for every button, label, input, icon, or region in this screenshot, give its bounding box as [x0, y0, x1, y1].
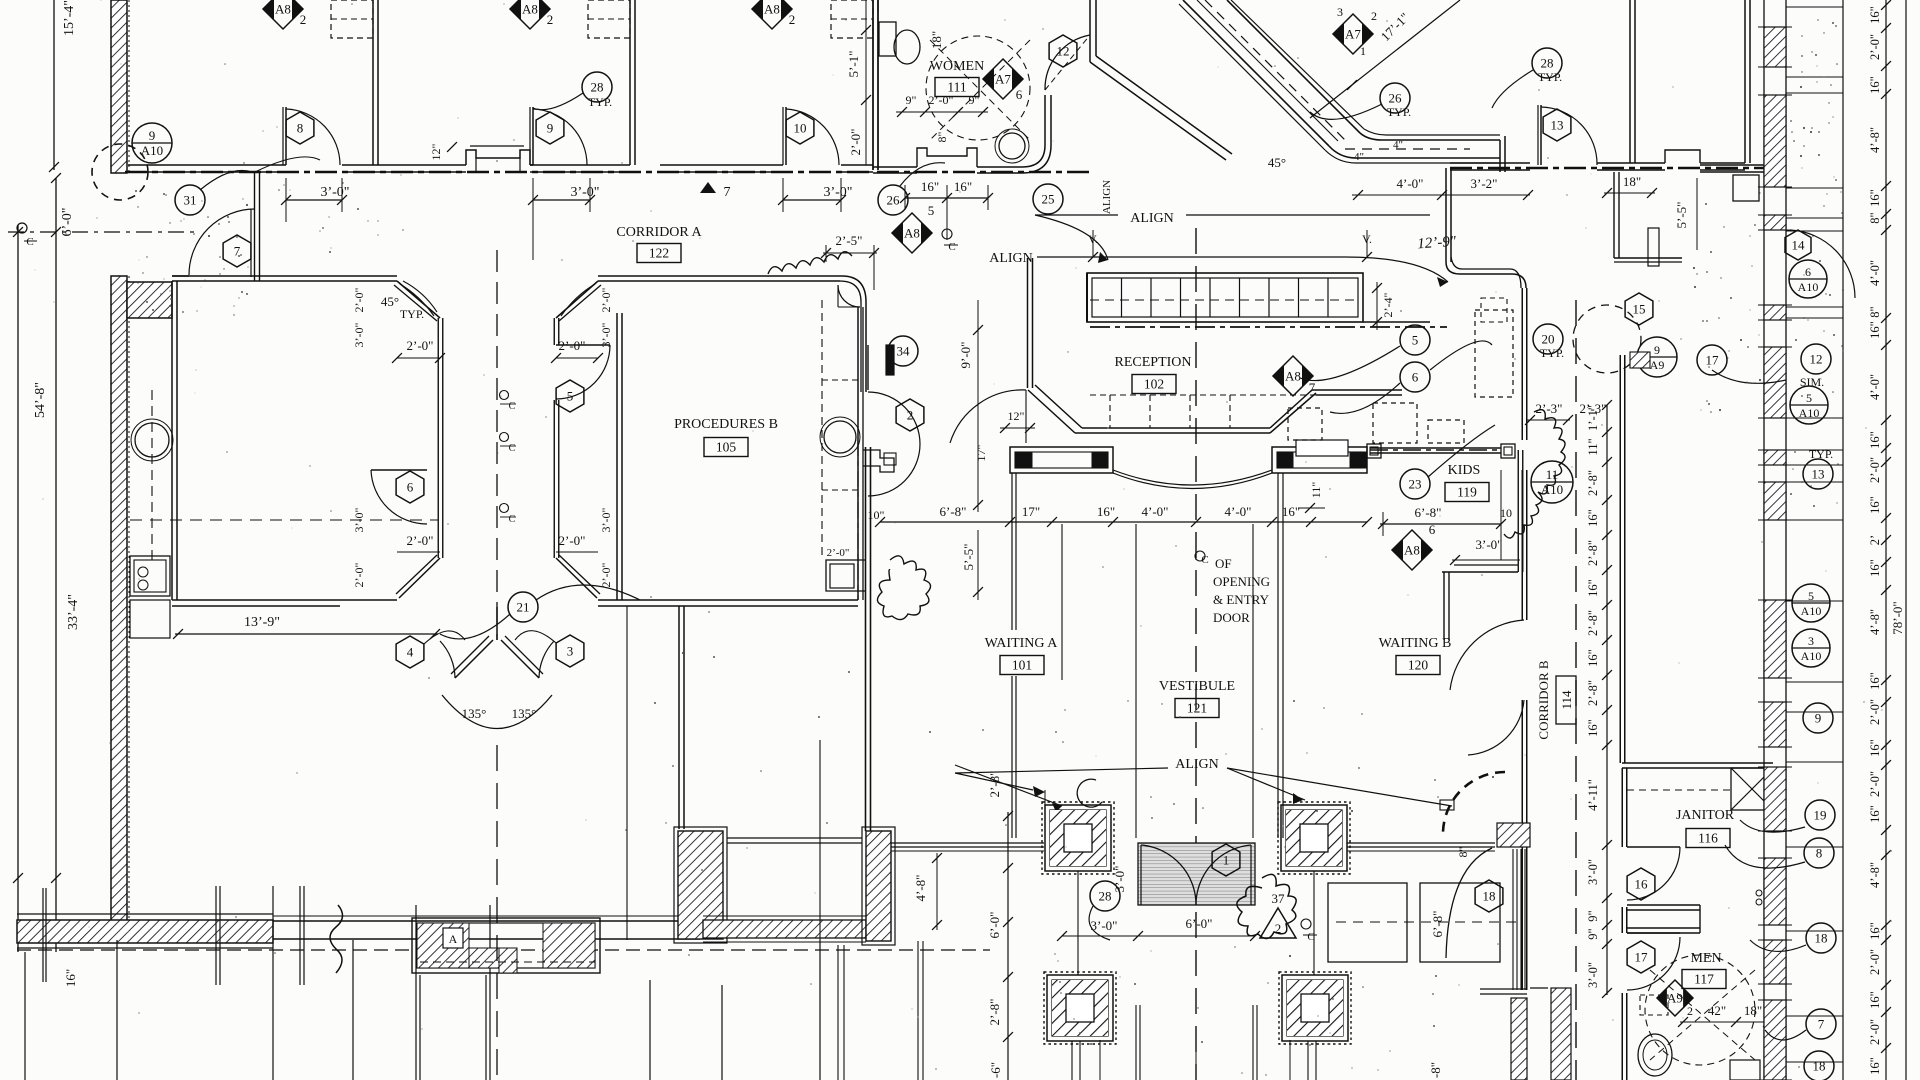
svg-text:2’: 2’ — [1868, 535, 1882, 545]
east dim line — [1885, 0, 1887, 1080]
svg-text:9: 9 — [149, 128, 156, 143]
svg-text:19: 19 — [1814, 808, 1827, 823]
pod2 chamfer top — [556, 281, 598, 318]
entry footing U-shape — [412, 918, 600, 973]
svg-text:16": 16" — [1868, 739, 1882, 757]
women sink — [999, 133, 1025, 159]
svg-text:12": 12" — [1008, 409, 1025, 423]
women south wall right — [977, 166, 1022, 168]
column connector lines — [1077, 871, 1079, 975]
svg-text:18": 18" — [1623, 174, 1641, 189]
front counter right segment — [1272, 447, 1367, 473]
svg-text:DOOR: DOOR — [1213, 610, 1250, 625]
svg-text:11": 11" — [1586, 438, 1600, 455]
corridor A south wall left — [172, 275, 397, 277]
storefront right segment — [1347, 842, 1495, 844]
pod1 chamfer bottom — [399, 558, 440, 598]
svg-text:4’-0": 4’-0" — [1868, 260, 1882, 286]
svg-text:2’-0": 2’-0" — [929, 93, 954, 107]
S sill hatched band — [703, 920, 866, 938]
svg-text:A9: A9 — [1650, 358, 1665, 372]
svg-text:101: 101 — [1012, 658, 1032, 673]
svg-text:17": 17" — [974, 444, 988, 461]
SW pier hatched — [678, 831, 723, 939]
svg-text:A8: A8 — [1285, 369, 1301, 384]
corridor B east wall — [1619, 355, 1621, 763]
svg-text:CORRIDOR A: CORRIDOR A — [616, 225, 702, 240]
svg-text:2: 2 — [907, 408, 914, 423]
svg-text:2: 2 — [547, 12, 554, 27]
triangle 7 marker — [700, 182, 716, 193]
counter room1 — [331, 0, 373, 38]
wall room2-3 — [629, 0, 631, 165]
svg-text:6: 6 — [1805, 265, 1811, 279]
counter jamb projection lines — [1277, 473, 1279, 838]
svg-text:2’-4": 2’-4" — [1381, 292, 1395, 317]
symbol 34 — [888, 336, 918, 366]
mullions below entry — [1135, 1005, 1137, 1080]
south footing hatched band — [17, 920, 273, 943]
wall room1-2 — [372, 0, 374, 165]
svg-text:4’-8": 4’-8" — [1868, 609, 1882, 635]
svg-text:18": 18" — [1744, 1003, 1762, 1018]
svg-text:2’-3": 2’-3" — [1536, 401, 1563, 416]
svg-text:16: 16 — [1635, 877, 1649, 892]
svg-text:6: 6 — [1429, 522, 1436, 537]
svg-text:14: 14 — [1792, 238, 1806, 253]
vestibule south wall — [172, 275, 189, 277]
svg-text:A10: A10 — [1801, 604, 1822, 618]
svg-text:WAITING B: WAITING B — [1379, 636, 1452, 651]
svg-text:16": 16" — [1586, 719, 1600, 737]
svg-text:RECEPTION: RECEPTION — [1115, 355, 1192, 370]
svg-text:WAITING A: WAITING A — [985, 636, 1059, 651]
svg-text:23: 23 — [1409, 477, 1422, 492]
svg-text:3’-2": 3’-2" — [1471, 176, 1498, 191]
reception west wall — [1027, 258, 1029, 388]
footing dashed inner — [420, 961, 595, 963]
svg-text:4": 4" — [1393, 139, 1403, 151]
svg-text:122: 122 — [649, 246, 669, 261]
svg-text:9: 9 — [547, 121, 554, 136]
corridor A south wall mid — [598, 275, 842, 277]
svg-text:6’-0": 6’-0" — [1186, 916, 1213, 931]
left long dimension line — [17, 225, 19, 952]
sheet speckle — [621, 162, 622, 163]
svg-text:2’-0": 2’-0" — [1868, 699, 1882, 725]
svg-text:C: C — [509, 443, 516, 454]
svg-text:3’-0": 3’-0" — [599, 507, 613, 532]
reception desk diagonal left — [1035, 385, 1082, 428]
wall down from corridor at 1447 — [1445, 168, 1447, 262]
ramp upper wall diagonal — [1089, 0, 1091, 62]
svg-text:16": 16" — [1868, 76, 1882, 94]
women rounded SE corner — [1022, 130, 1045, 167]
chase jogs — [863, 450, 894, 472]
svg-text:A7: A7 — [1345, 27, 1361, 42]
svg-text:A10: A10 — [141, 143, 163, 158]
column SW — [1047, 975, 1113, 1041]
waiting A west wall — [865, 447, 867, 831]
men turning circle — [1645, 955, 1755, 1065]
svg-text:8: 8 — [297, 121, 304, 136]
svg-text:TYP.: TYP. — [588, 95, 612, 109]
svg-text:17: 17 — [1635, 950, 1649, 965]
svg-text:2’-0": 2’-0" — [848, 129, 863, 156]
bench squares waiting B — [1328, 883, 1407, 962]
A8 diamond kids — [1392, 530, 1432, 570]
furniture dashed reception east — [1475, 310, 1513, 397]
svg-text:C: C — [1307, 931, 1314, 943]
front counter left segment — [1010, 447, 1113, 473]
vertical grid line x497 — [496, 745, 498, 1080]
hex 15 + 9/A9 — [1625, 293, 1653, 325]
svg-text:TYP.: TYP. — [1538, 70, 1562, 84]
svg-text:2’-0": 2’-0" — [1868, 34, 1882, 60]
door 8 — [285, 107, 287, 165]
svg-text:7: 7 — [724, 185, 731, 200]
break squiggle in footing — [330, 905, 343, 973]
svg-text:A10: A10 — [1801, 649, 1822, 663]
svg-text:16": 16" — [1868, 1057, 1882, 1075]
wall pier at vestibule corner — [127, 282, 172, 318]
svg-text:21: 21 — [517, 600, 530, 615]
column SE — [1282, 975, 1348, 1041]
svg-text:2’-8": 2’-8" — [1586, 680, 1600, 706]
east wall faces — [1763, 0, 1765, 1080]
svg-text:13: 13 — [1551, 118, 1564, 133]
svg-text:A8: A8 — [764, 2, 780, 17]
svg-text:10: 10 — [794, 121, 807, 136]
svg-text:12: 12 — [1057, 44, 1070, 59]
centerline vestibule dashed — [1195, 228, 1197, 1080]
women toilet — [894, 30, 920, 64]
svg-text:16": 16" — [1586, 649, 1600, 667]
svg-text:18: 18 — [1813, 1059, 1826, 1074]
svg-text:2’-3": 2’-3" — [1580, 401, 1607, 416]
women niche — [917, 148, 977, 167]
svg-text:9": 9" — [969, 93, 980, 107]
svg-text:16": 16" — [1868, 431, 1882, 449]
svg-text:2’-8": 2’-8" — [1586, 470, 1600, 496]
svg-text:105: 105 — [716, 440, 737, 455]
symbol 28 TYP top — [1532, 48, 1562, 78]
svg-text:VESTIBULE: VESTIBULE — [1159, 679, 1235, 694]
vert line pairs mid — [819, 740, 821, 940]
svg-text:28: 28 — [1099, 889, 1112, 904]
dashed centerline y232 — [8, 231, 195, 233]
hex 1 entry — [1212, 844, 1240, 876]
svg-text:A10: A10 — [1799, 406, 1820, 420]
svg-text:11: 11 — [1546, 467, 1559, 482]
svg-text:4": 4" — [1354, 151, 1364, 163]
niche lines detail — [475, 158, 477, 172]
svg-text:54’-8": 54’-8" — [33, 382, 48, 418]
svg-text:1: 1 — [1360, 44, 1366, 58]
counter room3 — [831, 0, 873, 38]
stair tray — [1087, 273, 1363, 322]
svg-text:3’-0": 3’-0" — [1586, 962, 1600, 988]
vestibule interior door frame — [254, 173, 256, 281]
pod1 verticals — [437, 318, 439, 558]
svg-text:3’-0": 3’-0" — [352, 322, 366, 347]
west exterior wall hatched lower — [111, 276, 127, 922]
svg-text:13: 13 — [1812, 467, 1825, 482]
svg-text:11": 11" — [1309, 482, 1323, 499]
svg-text:6’-8": 6’-8" — [1430, 911, 1445, 938]
door 2 procedures east — [867, 345, 869, 390]
svg-text:6: 6 — [1412, 370, 1419, 385]
symbols 5 6 reception — [1400, 325, 1430, 355]
CL entry — [1301, 919, 1311, 929]
svg-text:78’-0": 78’-0" — [1890, 601, 1905, 634]
procedures west wall — [616, 313, 618, 600]
corridor A north wall — [128, 164, 286, 166]
door 13 — [1540, 105, 1542, 165]
svg-text:C: C — [1201, 554, 1208, 566]
Y door 135 — [496, 607, 498, 640]
svg-text:17: 17 — [1706, 353, 1720, 368]
reception counter diagonal right — [1270, 390, 1312, 428]
entry mat hatched — [1138, 843, 1255, 905]
svg-text:2’-8": 2’-8" — [987, 999, 1002, 1026]
svg-text:12’-9": 12’-9" — [1417, 234, 1458, 253]
svg-text:16": 16" — [1868, 189, 1882, 207]
svg-text:16": 16" — [1868, 6, 1882, 24]
SE pier hatched — [866, 831, 891, 941]
svg-text:25: 25 — [1042, 192, 1055, 207]
procedures south wall — [598, 599, 858, 601]
door 7 — [189, 209, 255, 275]
svg-text:TYP.: TYP. — [1540, 346, 1564, 360]
exam fixture circle — [135, 423, 169, 457]
svg-text:A10: A10 — [1798, 280, 1819, 294]
wall room3-women — [872, 0, 874, 170]
west exterior wall hatched upper — [111, 0, 127, 173]
svg-text:2: 2 — [1687, 1004, 1693, 1018]
svg-text:A8: A8 — [1404, 543, 1420, 558]
11/A10 symbol — [1531, 461, 1573, 503]
svg-text:A8: A8 — [904, 226, 920, 241]
diamond A8 room1 — [263, 0, 303, 29]
kids north wall — [1370, 447, 1501, 449]
svg-text:119: 119 — [1457, 485, 1477, 500]
women fixtures top — [877, 0, 879, 12]
svg-text:33’-4": 33’-4" — [66, 594, 81, 630]
misc leader top left — [255, 157, 320, 172]
svg-text:A: A — [449, 932, 458, 946]
svg-text:& ENTRY: & ENTRY — [1213, 592, 1270, 607]
door 17 — [1627, 932, 1680, 934]
svg-text:16": 16" — [1586, 509, 1600, 527]
svg-text:16": 16" — [1868, 672, 1882, 690]
svg-text:26: 26 — [1389, 91, 1403, 106]
svg-text:2: 2 — [300, 12, 307, 27]
kids east wall — [1517, 450, 1519, 572]
door 16 — [1627, 846, 1680, 848]
svg-text:42": 42" — [1708, 1003, 1726, 1018]
5-5 dim NE — [1696, 178, 1698, 250]
svg-text:18": 18" — [929, 31, 944, 49]
svg-text:MEN: MEN — [1690, 951, 1721, 966]
svg-text:A8: A8 — [522, 2, 538, 17]
svg-text:3’-0": 3’-0" — [570, 185, 599, 200]
revision cloud procedures SE — [877, 556, 930, 620]
svg-text:34: 34 — [897, 344, 911, 359]
svg-text:117: 117 — [1694, 972, 1714, 987]
svg-text:C: C — [509, 401, 516, 412]
detail dashed circle at wall break — [92, 144, 148, 200]
column NE — [1281, 805, 1347, 871]
svg-text:6: 6 — [407, 480, 414, 495]
hex 4 3 doors — [396, 636, 424, 668]
svg-text:121: 121 — [1187, 701, 1207, 716]
svg-text:2’-0": 2’-0" — [827, 547, 850, 559]
svg-text:4’-8": 4’-8" — [1868, 127, 1882, 153]
symbol 26 left — [878, 185, 908, 215]
svg-text:ALIGN: ALIGN — [1130, 211, 1174, 226]
svg-text:4’-0": 4’-0" — [1142, 504, 1169, 519]
svg-text:-6": -6" — [988, 1062, 1003, 1078]
arc door corridor-waiting — [950, 390, 1026, 443]
svg-text:15: 15 — [1633, 302, 1646, 317]
south wall double line to center — [273, 920, 700, 922]
right top jog — [1700, 164, 1764, 166]
door 14 arc — [1790, 230, 1855, 298]
symbol 26 TYP stairs — [1380, 83, 1410, 113]
svg-text:TYP.: TYP. — [1387, 105, 1411, 119]
ramp inner rail — [1197, 0, 1338, 141]
corridor B centerline dashed — [1575, 300, 1577, 1080]
ramp center dashed — [1205, 0, 1345, 140]
svg-text:5’-5": 5’-5" — [961, 544, 976, 571]
corridor B west wall — [1521, 288, 1523, 440]
svg-text:ALIGN: ALIGN — [1175, 757, 1219, 772]
svg-text:2: 2 — [1275, 921, 1282, 936]
svg-text:8": 8" — [1868, 306, 1882, 317]
top right walls — [1629, 0, 1631, 163]
door 9 — [532, 107, 534, 165]
svg-text:16": 16" — [63, 969, 78, 987]
svg-text:4: 4 — [407, 645, 414, 660]
east room partition lines — [1786, 6, 1843, 8]
svg-text:JANITOR: JANITOR — [1676, 808, 1735, 823]
tray bold end — [1086, 273, 1088, 322]
storefront glass line west segment — [891, 842, 1044, 844]
hex 12 women door — [1049, 35, 1077, 67]
svg-text:16": 16" — [1868, 496, 1882, 514]
corr B revision cloud — [1504, 410, 1565, 538]
svg-text:45°: 45° — [1268, 155, 1286, 170]
svg-text:4’-0": 4’-0" — [1397, 176, 1424, 191]
svg-text:16": 16" — [954, 179, 972, 194]
ramp end cap — [1499, 140, 1501, 172]
svg-text:4’-0": 4’-0" — [1225, 504, 1252, 519]
pod2 chamfer bottom — [556, 558, 597, 598]
pod verticals right — [553, 318, 555, 345]
janitor dashed shelf — [1627, 789, 1731, 791]
svg-text:12: 12 — [1810, 352, 1823, 367]
svg-text:2’-0": 2’-0" — [352, 287, 366, 312]
svg-text:8": 8" — [1456, 846, 1470, 857]
exam dashed centerlines — [130, 519, 438, 521]
svg-text:2: 2 — [789, 12, 796, 27]
svg-text:5: 5 — [1412, 333, 1419, 348]
svg-text:45°: 45° — [381, 294, 399, 309]
women east wall — [1044, 95, 1046, 130]
svg-text:5: 5 — [1806, 391, 1812, 405]
women turning circle dashed — [926, 36, 1030, 140]
small niche W wall — [826, 560, 866, 591]
svg-text:8": 8" — [1868, 212, 1882, 223]
janitor west wall — [1621, 768, 1623, 847]
svg-text:6’-8": 6’-8" — [1415, 505, 1442, 520]
svg-text:10: 10 — [1500, 506, 1512, 520]
4-11 dim line — [1606, 763, 1608, 768]
women room walls — [872, 0, 874, 170]
svg-text:9’-0": 9’-0" — [958, 342, 973, 369]
svg-text:A10: A10 — [1541, 482, 1563, 497]
svg-text:16": 16" — [1868, 922, 1882, 940]
svg-text:CORRIDOR B: CORRIDOR B — [1536, 660, 1551, 739]
svg-text:17": 17" — [1022, 504, 1040, 519]
svg-text:2’-0": 2’-0" — [1868, 457, 1882, 483]
svg-text:4’-8": 4’-8" — [913, 875, 928, 902]
pod centerline dashed — [496, 250, 498, 640]
procedures walls east chase — [821, 300, 823, 560]
floor lines bottom center — [1099, 1040, 1101, 1080]
svg-text:PROCEDURES B: PROCEDURES B — [674, 417, 778, 432]
wall big room east — [678, 720, 680, 829]
symbol 25 — [1033, 184, 1063, 214]
svg-text:116: 116 — [1698, 831, 1718, 846]
svg-text:2’-0": 2’-0" — [407, 533, 434, 548]
svg-text:31: 31 — [184, 193, 197, 208]
svg-text:135°: 135° — [462, 706, 487, 721]
plumbing chase janitor-men — [1627, 904, 1700, 906]
svg-text:-8": -8" — [1428, 1062, 1443, 1078]
svg-text:4’-11": 4’-11" — [1586, 779, 1600, 811]
east mullion column — [1512, 849, 1514, 990]
svg-text:16": 16" — [1097, 504, 1115, 519]
svg-text:TYP.: TYP. — [400, 307, 424, 321]
closet NE — [1613, 172, 1615, 258]
revision cloud corridor — [768, 252, 852, 274]
svg-text:2’-0": 2’-0" — [352, 562, 366, 587]
svg-text:C: C — [509, 514, 516, 525]
svg-text:2’-0": 2’-0" — [599, 287, 613, 312]
svg-text:16": 16" — [1868, 805, 1882, 823]
svg-text:5’-1": 5’-1" — [846, 51, 861, 78]
svg-text:13’-9": 13’-9" — [244, 615, 280, 630]
men dashed fixtures — [1640, 995, 1668, 1015]
svg-text:28: 28 — [1541, 56, 1554, 71]
svg-text:3’-0": 3’-0" — [1586, 859, 1600, 885]
svg-text:3’-0": 3’-0" — [823, 185, 852, 200]
svg-text:2’-8": 2’-8" — [1586, 610, 1600, 636]
A symbol box in footing — [443, 928, 463, 948]
janitor north wall — [1622, 762, 1773, 764]
svg-text:3’-0": 3’-0" — [352, 507, 366, 532]
counter room2 — [588, 0, 630, 38]
svg-text:5: 5 — [567, 389, 574, 404]
door 18 arc vestibule — [1446, 848, 1492, 958]
svg-text:9: 9 — [1654, 343, 1660, 357]
svg-text:9": 9" — [1586, 910, 1600, 921]
CL symbols pod — [500, 391, 509, 400]
svg-text:3’-0": 3’-0" — [599, 322, 613, 347]
svg-text:16": 16" — [1868, 559, 1882, 577]
